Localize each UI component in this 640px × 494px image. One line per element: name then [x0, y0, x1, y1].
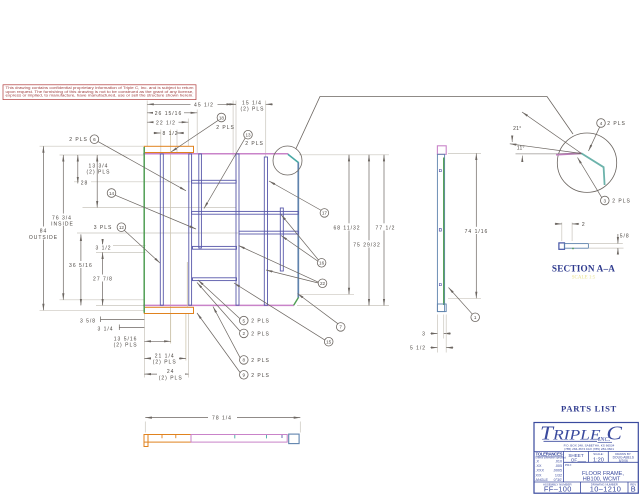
balloon 4	[589, 119, 626, 151]
svg-text:(2) PLS: (2) PLS	[159, 375, 183, 381]
balloon 12 label 3 PLS	[94, 223, 160, 263]
svg-text:3 1/2: 3 1/2	[95, 246, 111, 252]
sheet box	[568, 453, 586, 462]
svg-text:9: 9	[243, 373, 246, 378]
svg-text:2 PLS: 2 PLS	[251, 319, 270, 325]
balloon 1	[449, 288, 480, 322]
svg-text:45 1/2: 45 1/2	[194, 102, 214, 108]
cross member H2	[192, 211, 299, 214]
tolerances	[536, 451, 567, 481]
section dimension 5/8	[588, 234, 629, 254]
dimension 26 15/16	[147, 110, 197, 117]
drawn-by box	[613, 452, 635, 463]
svg-text:13: 13	[245, 133, 251, 138]
magenta channel ticks	[234, 435, 236, 438]
joist V5	[264, 157, 267, 305]
svg-text:10–1210: 10–1210	[590, 485, 622, 494]
rev	[630, 482, 636, 493]
svg-text:5: 5	[243, 318, 246, 323]
section A-A weld dot	[572, 248, 574, 250]
svg-text:PRJ:: PRJ:	[565, 463, 572, 467]
svg-text:76 3/4: 76 3/4	[52, 215, 72, 221]
detail top rail (magenta)	[556, 153, 581, 154]
bottom-right chamfer (green)	[294, 297, 299, 305]
svg-text:68 11/32: 68 11/32	[333, 226, 360, 232]
balloon 8	[213, 307, 270, 365]
balloon 7	[298, 294, 346, 332]
dimension 3 (side view)	[422, 315, 451, 353]
cross member H5	[193, 278, 237, 281]
joist V2b (upper stub)	[199, 154, 202, 248]
bottom view orange channel	[144, 435, 191, 443]
dimension 13 3/4 (2) PLS	[78, 155, 111, 183]
svg-text:4: 4	[600, 121, 603, 126]
svg-text:OF: OF	[571, 458, 578, 463]
dimension 21 1/4 (2) PLS	[144, 352, 186, 365]
bottom view left tab	[144, 435, 148, 447]
svg-text:13 5/16: 13 5/16	[114, 336, 138, 342]
svg-text:24: 24	[167, 369, 175, 375]
orange channel ticks	[161, 435, 163, 438]
frame right rail (steel blue)	[297, 162, 299, 297]
title block	[534, 423, 638, 494]
svg-text:11°: 11°	[517, 145, 525, 151]
svg-text:16: 16	[319, 261, 325, 266]
svg-text:SECTION A–A: SECTION A–A	[552, 264, 615, 274]
extension lines bottom	[144, 314, 188, 378]
extension lines top	[147, 101, 266, 343]
section A-A web	[565, 244, 589, 249]
svg-text:SCALE 1:5: SCALE 1:5	[572, 276, 596, 281]
svg-text:OUTSIDE: OUTSIDE	[29, 235, 58, 241]
svg-text:(2) PLS: (2) PLS	[114, 343, 138, 349]
dimension 22 1/2	[147, 119, 188, 126]
svg-text:15: 15	[326, 340, 332, 345]
svg-text:8/2/06: 8/2/06	[619, 459, 628, 463]
side view bottom plate	[437, 304, 446, 312]
svg-text:2 PLS: 2 PLS	[251, 332, 270, 338]
svg-text:3: 3	[604, 198, 607, 203]
dimension 8 1/2	[154, 131, 185, 137]
balloon 17	[269, 181, 329, 217]
svg-text:78 1/4: 78 1/4	[212, 416, 232, 422]
svg-text:7: 7	[339, 325, 342, 330]
balloon 6	[69, 135, 186, 191]
svg-text:28: 28	[81, 180, 89, 186]
svg-text:2: 2	[582, 222, 586, 228]
svg-text:77 1/2: 77 1/2	[376, 226, 396, 232]
logo TRIPLE C	[540, 423, 623, 452]
svg-text:14: 14	[109, 191, 115, 196]
detail horizontal reference	[516, 153, 582, 155]
svg-text:FF–100: FF–100	[544, 485, 572, 494]
svg-text:5 1/2: 5 1/2	[410, 346, 426, 352]
top-right chamfer (teal)	[288, 154, 299, 162]
frame top-left cross member (orange)	[144, 146, 193, 152]
dimension 3 1/4	[97, 325, 144, 333]
dimension 13 5/16 (2) PLS	[111, 335, 171, 348]
svg-text:75 29/32: 75 29/32	[353, 243, 380, 249]
svg-text:27 7/8: 27 7/8	[93, 277, 113, 283]
dimension 28	[79, 155, 97, 208]
svg-text:2 PLS: 2 PLS	[607, 121, 626, 127]
frame bottom rail (magenta)	[143, 304, 294, 306]
svg-text:3 5/8: 3 5/8	[80, 318, 96, 324]
joist V2	[189, 154, 192, 305]
svg-text:3: 3	[422, 332, 426, 338]
svg-text:2 PLS: 2 PLS	[251, 358, 270, 364]
dimension 5 1/2 (side view)	[410, 315, 453, 353]
svg-text:3 PLS: 3 PLS	[94, 225, 113, 231]
balloon 16	[281, 215, 326, 268]
dimension 75 29/32	[351, 155, 383, 306]
svg-text:26 15/16: 26 15/16	[155, 111, 182, 117]
side view weld dots	[439, 229, 441, 232]
detail 11 deg line	[510, 144, 582, 154]
dimension 36 5/16	[67, 234, 95, 305]
svg-text:12: 12	[119, 225, 125, 230]
section dimension 2	[555, 222, 586, 241]
balloon 5	[198, 280, 270, 325]
svg-text:2: 2	[243, 331, 246, 336]
svg-text:2 PLS: 2 PLS	[245, 141, 264, 147]
joist V1	[160, 154, 163, 305]
frame bottom-left cross member (orange)	[144, 307, 193, 313]
svg-text:1/32: 1/32	[555, 473, 562, 477]
svg-text:(2) PLS: (2) PLS	[153, 360, 177, 366]
svg-text:8: 8	[243, 358, 246, 363]
dimension 3 1/2	[94, 240, 113, 251]
balloon 13	[204, 130, 264, 208]
cross member H4	[193, 246, 237, 249]
svg-text:SCALE:: SCALE:	[593, 452, 603, 456]
svg-text:INSIDE: INSIDE	[51, 222, 74, 228]
balloon 2	[197, 283, 270, 338]
svg-text:.X: .X	[536, 460, 540, 464]
dimension 76 3/4 INSIDE	[51, 155, 74, 300]
balloon 3	[578, 158, 631, 205]
proprietary note box	[3, 85, 196, 100]
svg-text:ANGLE: ANGLE	[536, 478, 549, 482]
project / title area	[565, 463, 624, 482]
bottom view end block	[289, 434, 299, 444]
assembly number	[543, 482, 572, 493]
svg-text:6: 6	[93, 137, 96, 142]
svg-text:0°30': 0°30'	[554, 478, 563, 482]
side view body	[437, 154, 444, 311]
detail angle arrows	[511, 136, 513, 142]
side view angle (green)	[443, 158, 445, 306]
svg-text:1: 1	[474, 315, 477, 320]
balloon 15	[234, 283, 333, 346]
svg-text:X/X: X/X	[536, 473, 542, 477]
detail chamfer member (teal)	[581, 153, 604, 185]
dimension 45 1/2	[147, 101, 233, 109]
svg-text:B: B	[631, 485, 636, 494]
cross member H1	[192, 180, 237, 183]
cross member H3	[239, 231, 298, 234]
svg-text:2 PLS: 2 PLS	[612, 199, 631, 205]
dimension 68 11/32	[331, 155, 363, 294]
dimension 3 5/8	[80, 317, 144, 325]
detail 21 deg line	[522, 112, 582, 154]
joist V6 (lower stub)	[280, 208, 283, 271]
svg-text:PARTS LIST: PARTS LIST	[561, 403, 617, 413]
frame left rail (green)	[143, 147, 145, 313]
svg-text:17: 17	[322, 211, 328, 216]
extension lines left	[40, 146, 239, 310]
svg-text:.XX: .XX	[536, 464, 542, 468]
balloon 22	[239, 246, 327, 288]
svg-text:2 PLS: 2 PLS	[69, 137, 88, 143]
olive ext segment inside frame	[186, 262, 188, 307]
svg-text:.0005: .0005	[553, 469, 562, 473]
bottom view blue dash	[281, 435, 283, 438]
dimension 74 1/16	[448, 153, 491, 298]
svg-text:(2) PLS: (2) PLS	[87, 169, 111, 175]
svg-text:5/8: 5/8	[620, 234, 630, 240]
svg-text:(2) PLS: (2) PLS	[241, 106, 265, 112]
bottom view magenta channel	[191, 435, 287, 443]
svg-text:2 PLS: 2 PLS	[251, 373, 270, 379]
svg-text:(785) 284-3674 FAX (785) 28: (785) 284-3674 FAX (785) 284-3601	[564, 447, 614, 451]
svg-text:.010: .010	[555, 460, 562, 464]
leader to detail view	[296, 97, 573, 149]
svg-text:84: 84	[40, 229, 48, 235]
extension lines right	[297, 155, 389, 306]
svg-text:8 1/2: 8 1/2	[162, 131, 178, 137]
drawing number	[590, 482, 622, 493]
dimension 24 (2) PLS	[144, 368, 188, 381]
balloon 14	[107, 189, 196, 229]
joist V4	[236, 154, 239, 305]
detail circle A on main view	[273, 146, 302, 175]
svg-text:express or implied, to manufac: express or implied, to manufacture, have…	[6, 94, 194, 98]
svg-text:22: 22	[320, 281, 326, 286]
balloon 18	[171, 113, 235, 152]
svg-text:2 PLS: 2 PLS	[216, 125, 235, 131]
svg-text:.005: .005	[555, 464, 562, 468]
section A-A left block	[559, 243, 565, 249]
detail view circle	[557, 133, 616, 192]
svg-text:74 1/16: 74 1/16	[465, 229, 489, 235]
bottom view dimension 78 1/4	[145, 414, 300, 432]
svg-text:36 5/16: 36 5/16	[69, 263, 93, 269]
balloon 9	[197, 313, 270, 379]
svg-text:18: 18	[219, 115, 225, 120]
dimension 15 1/4 (2) PLS	[229, 101, 273, 113]
svg-text:3 1/4: 3 1/4	[97, 326, 113, 332]
svg-text:22 1/2: 22 1/2	[156, 120, 176, 126]
dimension 27 7/8	[92, 252, 115, 305]
svg-text:21°: 21°	[513, 126, 521, 132]
svg-text:.XXX: .XXX	[536, 469, 545, 473]
scale box	[593, 452, 604, 463]
svg-text:21 1/4: 21 1/4	[155, 353, 175, 359]
dimension 77 1/2	[373, 155, 398, 306]
side view top plate (magenta)	[437, 146, 446, 155]
dimension 84 OUTSIDE	[29, 146, 58, 310]
frame top rail (magenta)	[143, 153, 288, 155]
svg-text:1:20: 1:20	[593, 457, 604, 463]
